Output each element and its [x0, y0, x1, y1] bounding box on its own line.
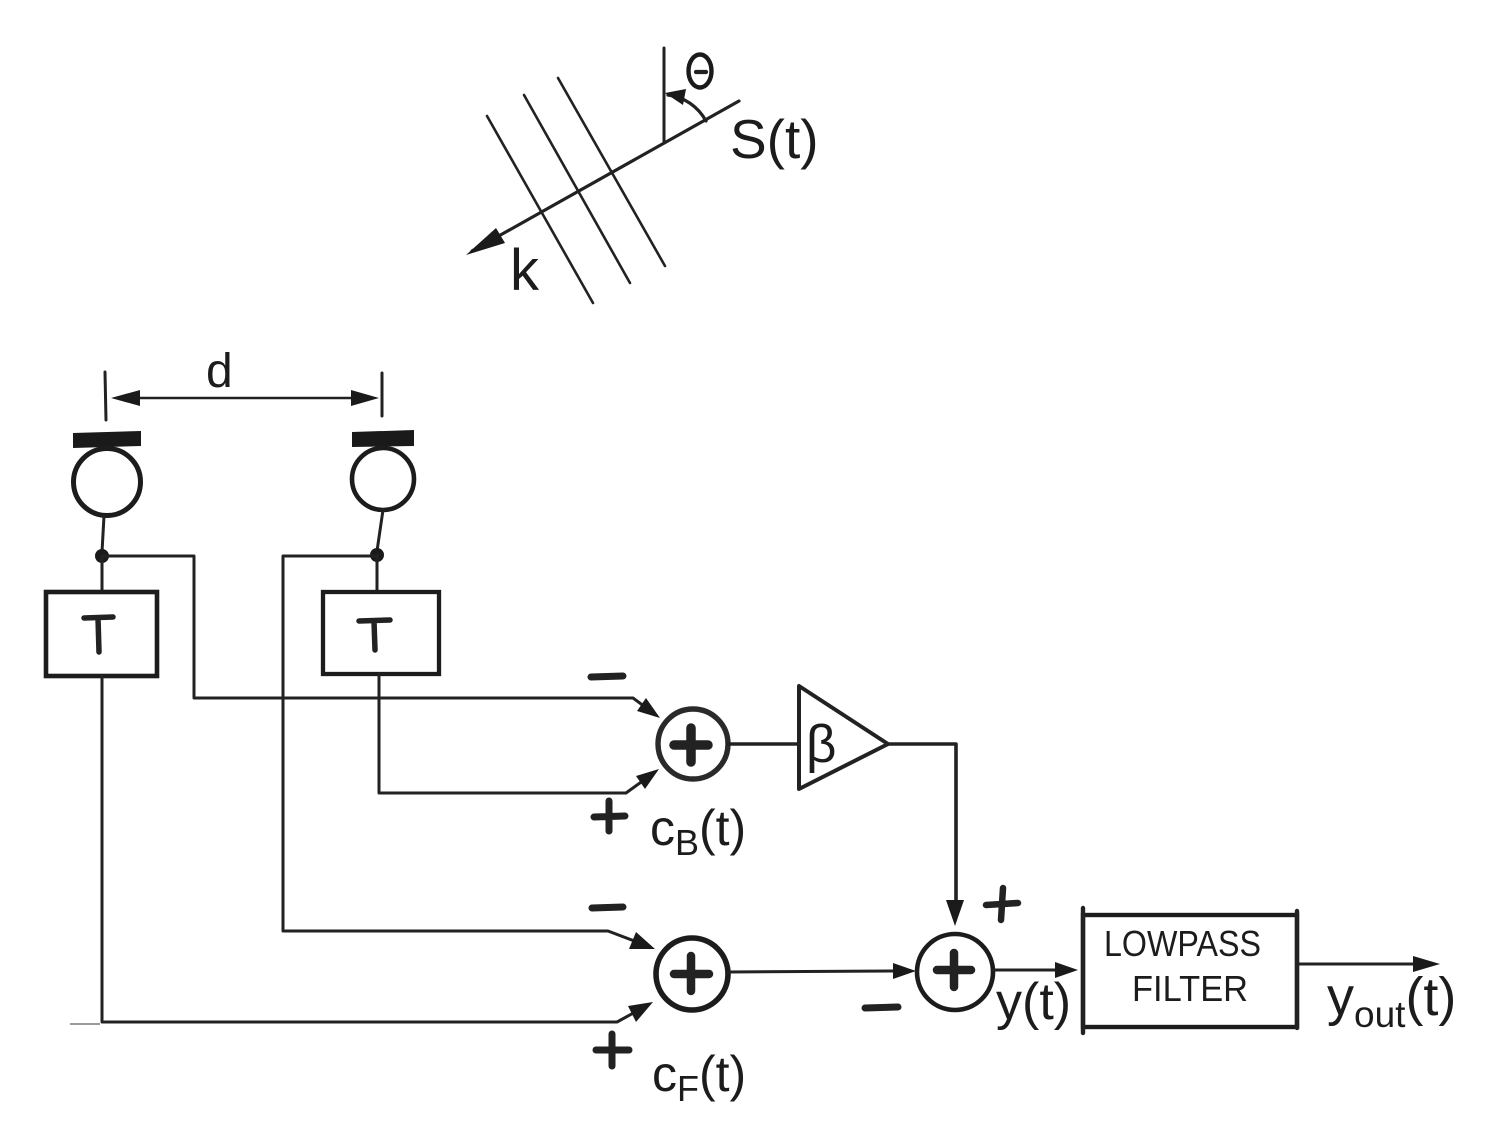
wire amp to summer y plus input: [888, 744, 956, 900]
minus label cF: [592, 907, 623, 908]
dimension arrow right: [351, 390, 379, 406]
delay block T2: [323, 592, 439, 674]
wavefront line 2: [524, 95, 630, 283]
wire node B to delay T2: [376, 555, 379, 592]
plus label cF: [596, 1034, 629, 1066]
dimension line d: [118, 397, 372, 400]
svg-text:d: d: [206, 345, 233, 398]
arrowhead k: [466, 228, 505, 255]
summer cB plus glyph: [674, 728, 708, 762]
svg-text:y(t): y(t): [996, 973, 1071, 1031]
dimension tick left: [105, 372, 106, 420]
wave propagation line S(t): [472, 101, 739, 251]
arrowhead summer y left: [893, 963, 916, 979]
node B junction dot: [370, 548, 384, 562]
summer y circle: [917, 934, 993, 1010]
dimension arrow left: [111, 390, 140, 406]
wire delay T1 to summer cF plus input: [102, 676, 648, 1022]
wavefront line 3: [558, 78, 665, 266]
wire summer y to lowpass filter: [993, 969, 1058, 972]
arrowhead output: [1413, 956, 1440, 972]
angle arc theta: [668, 95, 706, 121]
wire summer cF to summer y: [728, 971, 896, 972]
T2 glyph: [359, 620, 390, 650]
microphone 1 top bar: [73, 431, 141, 448]
arrowhead summer y top: [946, 900, 964, 926]
lowpass filter box: [1083, 915, 1297, 1027]
svg-text:S(t): S(t): [730, 108, 819, 170]
wavefront line 1: [487, 116, 593, 303]
node A junction dot: [95, 549, 109, 563]
svg-text:k: k: [510, 238, 540, 303]
plus label cB: [594, 801, 625, 831]
wire summer cB to amp: [728, 742, 798, 745]
microphone 2 top bar: [352, 430, 414, 447]
wire node B to summer cF minus input: [283, 556, 650, 947]
wire delay T2 to summer cB plus input: [379, 674, 655, 793]
microphone 1 body: [74, 449, 141, 516]
arrowhead into lowpass filter: [1055, 962, 1078, 978]
arrowhead cF minus: [629, 932, 655, 949]
microphone 2 body: [352, 448, 414, 510]
lowpass filter box right overshoot: [1295, 911, 1299, 1028]
wire node A to summer cB minus input: [102, 556, 656, 715]
arrowhead cB plus: [636, 769, 659, 789]
plus label summer y top: [986, 888, 1018, 920]
theta symbol: [689, 55, 712, 88]
arc arrowhead: [665, 89, 686, 105]
svg-text:β: β: [806, 715, 837, 774]
wire mic2 to node B: [377, 510, 383, 551]
lowpass filter box left overshoot: [1081, 908, 1085, 1033]
svg-text:cF(t): cF(t): [652, 1046, 746, 1109]
summer y plus glyph: [937, 953, 971, 987]
arrowhead cB minus: [637, 698, 660, 718]
summer cB circle: [658, 709, 728, 779]
summer cF circle: [656, 938, 728, 1010]
vertical reference line: [663, 48, 666, 143]
wire lowpass filter output: [1297, 963, 1420, 966]
svg-text:LOWPASS: LOWPASS: [1104, 923, 1261, 964]
pencil overshoot at corner: [70, 1023, 100, 1025]
wire node A to delay T1: [101, 556, 104, 592]
minus label summer y: [865, 1007, 898, 1008]
T1 glyph: [84, 617, 113, 652]
delay block T1: [46, 592, 157, 676]
minus label cB: [591, 676, 623, 677]
svg-text:FILTER: FILTER: [1132, 968, 1248, 1009]
dimension tick right: [381, 373, 384, 416]
amplifier beta triangle: [799, 686, 888, 789]
arrowhead cF plus: [628, 1002, 653, 1022]
svg-text:cB(t): cB(t): [650, 800, 746, 863]
summer cF plus glyph: [674, 956, 709, 991]
wire mic1 to node A: [102, 516, 104, 552]
